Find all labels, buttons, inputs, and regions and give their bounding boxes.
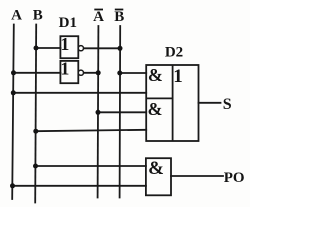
wire S output <box>199 102 221 104</box>
inverter D1.2 output bubble <box>78 70 83 75</box>
svg-text:D2: D2 <box>165 45 183 61</box>
junction A to D1.2 <box>11 70 16 75</box>
wire B-bar vertical rail <box>119 26 122 198</box>
wire B vertical rail <box>35 25 36 203</box>
junction B-bar rail to D2 <box>117 71 122 76</box>
svg-text:S: S <box>223 96 232 113</box>
wire A-bar vertical rail <box>97 26 100 198</box>
svg-text:1: 1 <box>60 59 69 79</box>
wire B rail to carry AND gate input <box>36 165 146 167</box>
svg-text:1: 1 <box>173 66 183 87</box>
junction A-bar rail to D2 <box>96 110 101 115</box>
wire B rail to D2 AND2 input <box>36 130 146 131</box>
wire A rail to D2 AND1 input <box>13 92 146 94</box>
wire D1 inverter 2 output to A-bar rail <box>83 72 98 74</box>
wire A rail to carry AND gate input <box>13 185 146 187</box>
junction D1.2 output on A-bar rail <box>96 70 101 75</box>
wire A vertical rail <box>12 25 14 200</box>
wire A-bar rail to D2 AND2 input <box>98 111 146 113</box>
wire B-bar rail to D2 AND1 input <box>120 72 146 74</box>
junction B rail to D2 <box>33 129 38 134</box>
svg-text:D1: D1 <box>59 15 77 31</box>
wire B to D1 inverter 1 input <box>36 47 61 49</box>
junction A rail to D2 <box>11 90 16 95</box>
svg-text:A: A <box>11 8 22 24</box>
junction B rail to carry gate <box>33 164 38 169</box>
junction D1.1 output on B-bar rail <box>118 46 123 51</box>
inverter D1.1 body <box>60 36 78 58</box>
carry AND gate body <box>146 158 171 195</box>
wire A to D1 inverter 2 input <box>14 72 61 74</box>
wire D1 inverter 1 output to B-bar rail <box>83 47 120 49</box>
svg-text:PO: PO <box>224 170 245 186</box>
svg-text:B: B <box>114 9 124 25</box>
junction B to D1.1 <box>34 46 39 51</box>
gate D2 body <box>146 65 198 141</box>
gate D2 divider between AND cells <box>146 97 172 99</box>
junction A rail to carry gate <box>10 183 15 188</box>
wire PO output <box>171 175 223 177</box>
inverter D1.2 body <box>60 61 78 83</box>
inverter D1.1 output bubble <box>78 46 83 51</box>
svg-text:&: & <box>148 65 163 85</box>
svg-text:&: & <box>148 99 163 119</box>
svg-text:A: A <box>93 9 104 25</box>
gate D2 divider AND/OR columns <box>172 65 174 141</box>
svg-text:&: & <box>148 158 164 179</box>
svg-text:1: 1 <box>60 34 69 54</box>
svg-text:B: B <box>33 7 43 23</box>
